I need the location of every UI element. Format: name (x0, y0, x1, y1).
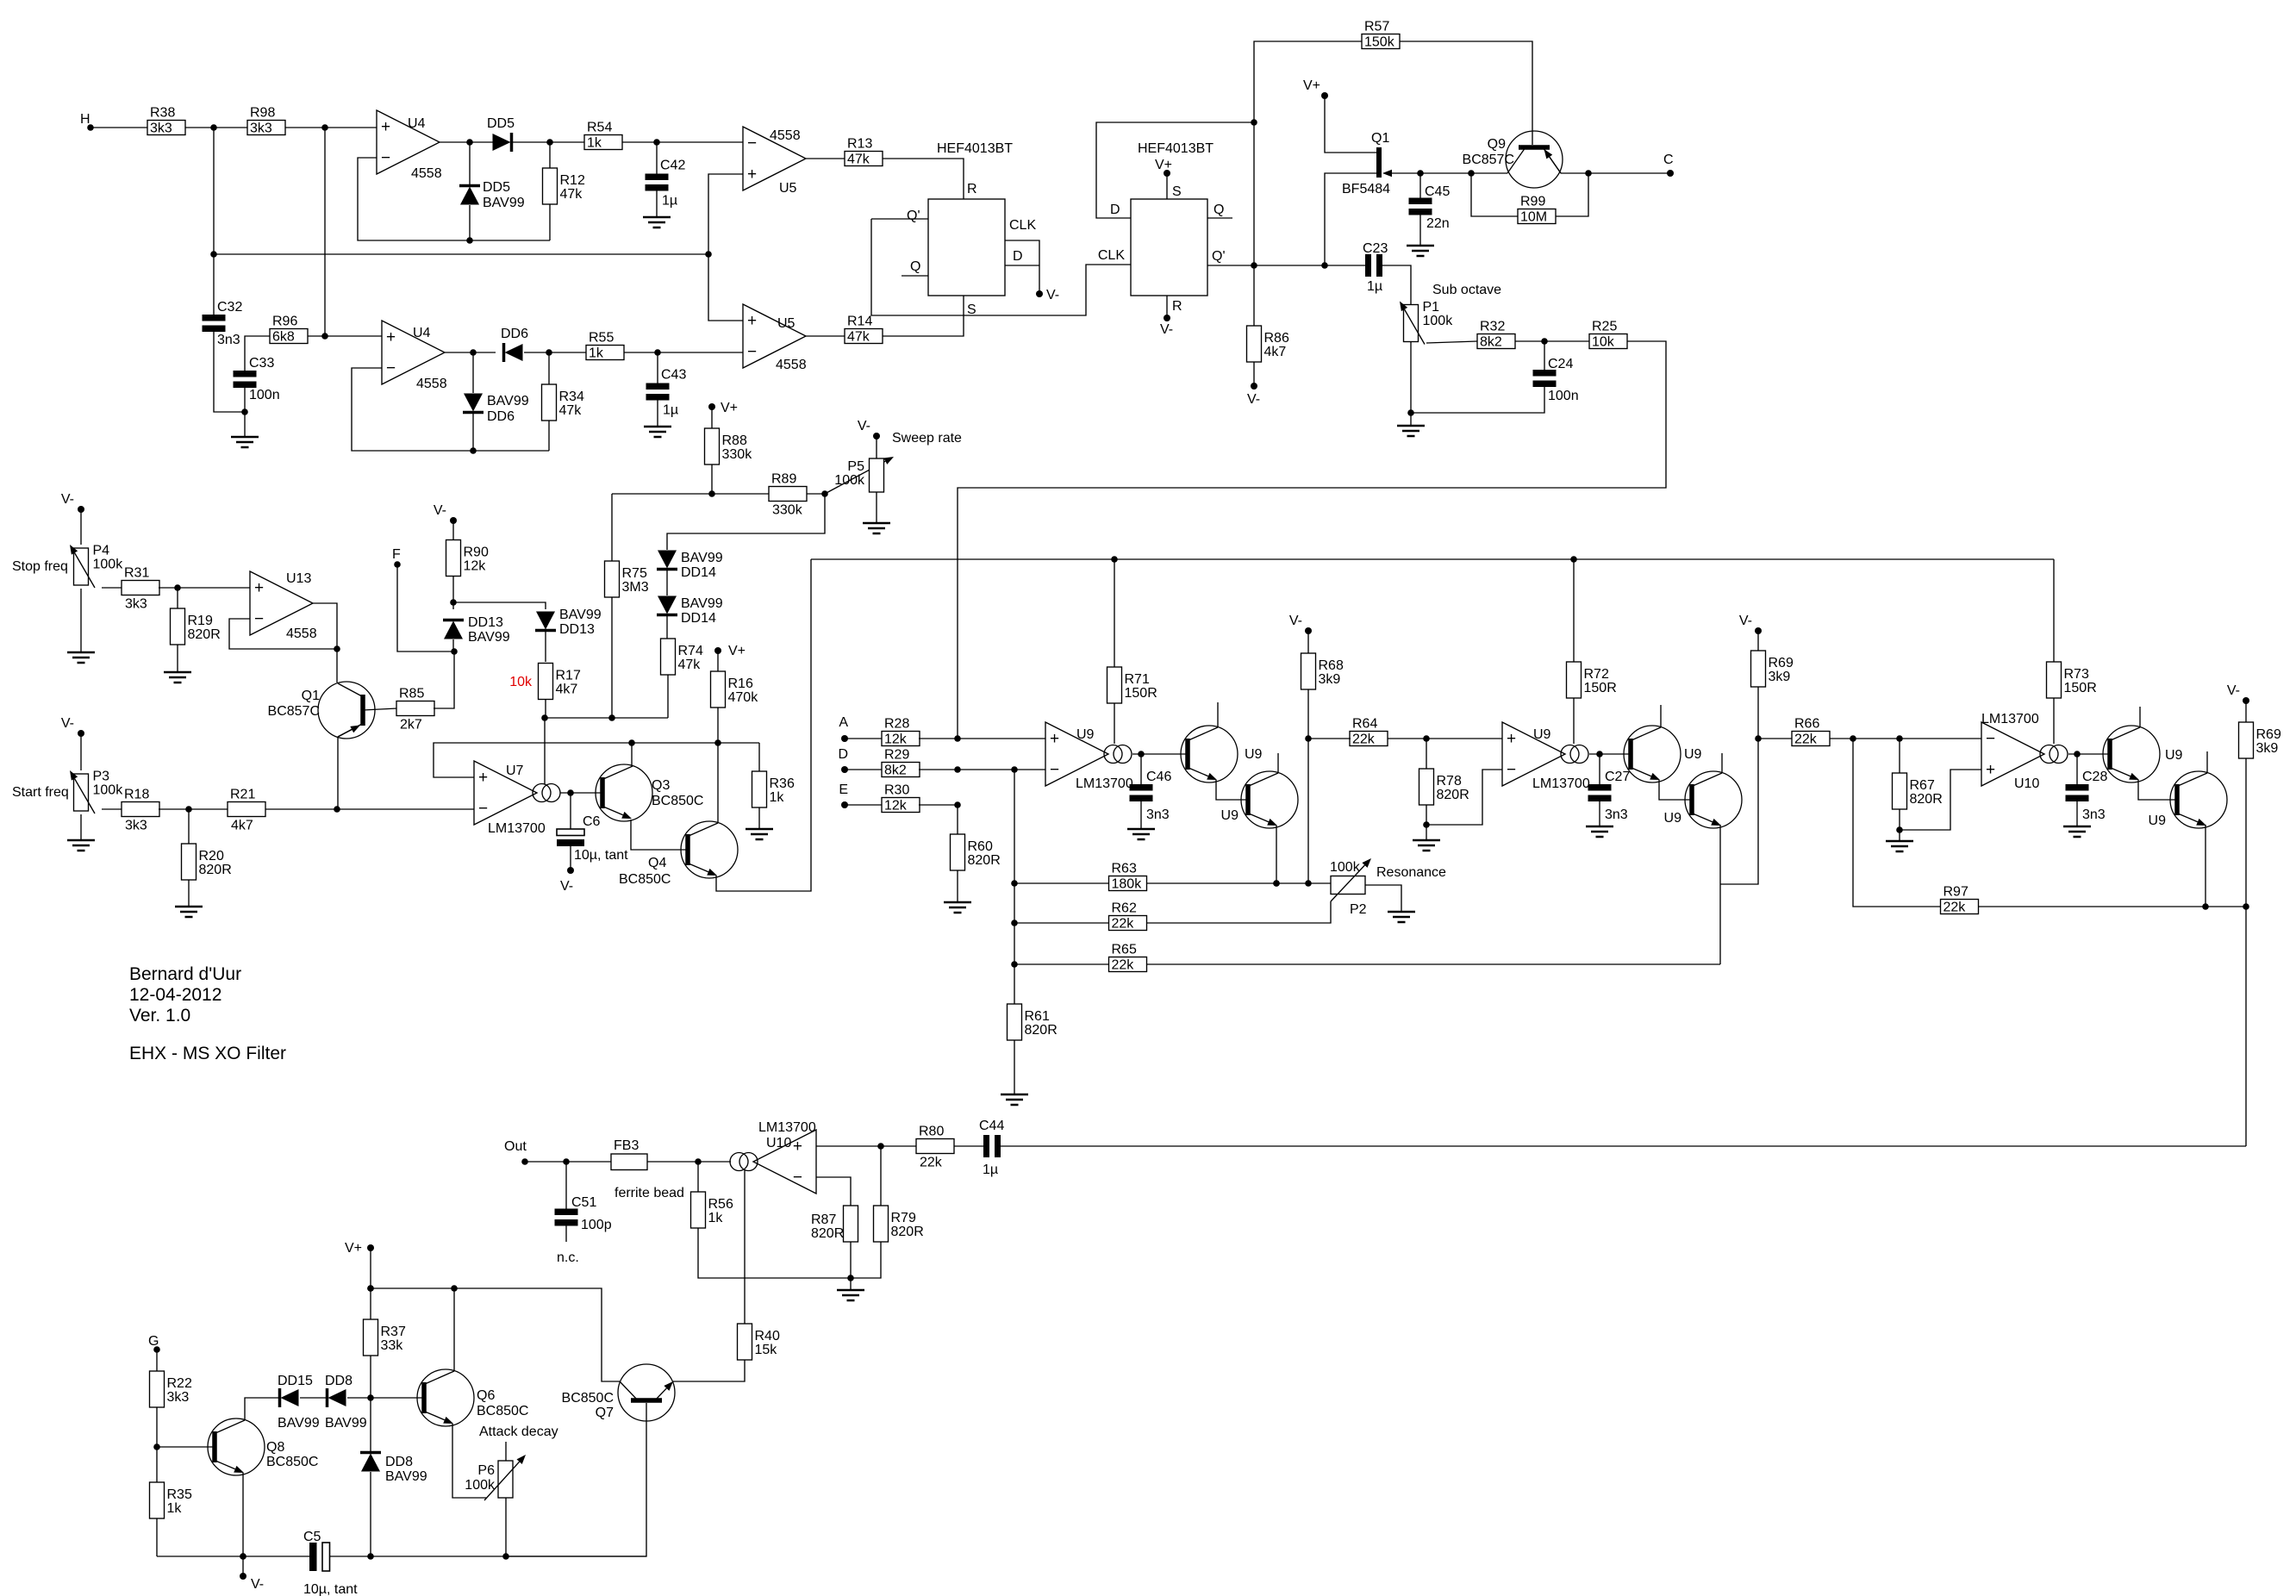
svg-text:−: − (1507, 761, 1516, 779)
power V- FF2 (1160, 315, 1173, 337)
pin label CLK FF2 (1098, 248, 1125, 263)
svg-text:−: − (793, 1169, 802, 1187)
ground under R61 (1001, 1094, 1028, 1105)
diode DD13 right BAV99 (535, 608, 602, 637)
svg-text:150R: 150R (1125, 686, 1157, 701)
wire C28 to ground (2076, 801, 2078, 826)
wire U9q4 emitter down (1719, 825, 1721, 964)
svg-text:150R: 150R (1584, 681, 1617, 695)
junction R64 R78 (1423, 735, 1430, 742)
svg-text:R88: R88 (722, 433, 747, 448)
wire R67 top lead (1899, 739, 1900, 773)
svg-text:4558: 4558 (776, 358, 807, 372)
wire rail to R73 (2053, 559, 2055, 662)
wire F down (397, 564, 454, 651)
wire C42 top lead (656, 142, 658, 175)
wire U4a feedback (358, 158, 550, 240)
pin label R FF2 (1172, 299, 1182, 314)
transistor Q7 BC850C (562, 1364, 675, 1421)
svg-text:12k: 12k (464, 559, 487, 574)
diode DD13 left BAV99 (443, 615, 510, 645)
wire Q1 to C45 (1420, 172, 1471, 174)
title author (129, 964, 241, 984)
svg-text:R29: R29 (884, 748, 909, 763)
svg-text:U5: U5 (777, 316, 795, 331)
wire U10b bias down to R40 (744, 1170, 746, 1324)
junction R62 left (1011, 920, 1018, 926)
power V- FF1 (1036, 288, 1059, 302)
wire R28 to U9a plus (919, 738, 1045, 739)
resistor R66 (1792, 717, 1830, 747)
diode DD5 shunt BAV99 (459, 180, 525, 210)
ground under R20 (175, 907, 203, 917)
wire FF1 D stub (1005, 265, 1039, 266)
wire C27 to ground (1599, 801, 1600, 826)
svg-text:R22: R22 (167, 1376, 192, 1391)
svg-text:V-: V- (61, 492, 74, 507)
junction P6 rail (502, 1553, 509, 1560)
resistor R79 (874, 1206, 924, 1242)
wire DD6 to R55 (524, 352, 586, 353)
power V- P3 (61, 716, 84, 737)
wire U9q3 emitter link (1659, 780, 1690, 800)
svg-text:1k: 1k (589, 346, 604, 361)
wire R54 to U5a (622, 141, 743, 143)
wire FF1 Q stub (902, 275, 928, 277)
wire R75 bottom lead (611, 597, 613, 718)
resistor R56 (691, 1192, 733, 1228)
wire R97 to feedback node (1978, 906, 2246, 907)
diode DD8 series BAV99 (325, 1374, 367, 1431)
ground under R87 (837, 1290, 864, 1300)
svg-text:C51: C51 (571, 1195, 596, 1210)
svg-text:820R: 820R (891, 1225, 924, 1239)
junction R90 DD13 (450, 599, 457, 606)
svg-text:R17: R17 (556, 669, 581, 683)
junction R78 gnd (1423, 821, 1430, 828)
svg-text:R80: R80 (919, 1125, 944, 1139)
wire U10b minus (816, 1177, 851, 1206)
svg-text:R99: R99 (1520, 195, 1545, 209)
svg-text:R12: R12 (560, 173, 585, 188)
svg-text:100k: 100k (834, 473, 865, 488)
wire R22 to R35 (156, 1407, 158, 1482)
svg-text:22k: 22k (1352, 733, 1376, 747)
wire R73 to U10 bias (2053, 698, 2055, 744)
power V+ env (345, 1241, 374, 1256)
svg-text:100k: 100k (93, 783, 124, 798)
wire Q6 collector up (453, 1288, 455, 1371)
wire R64 to U9b plus (1388, 738, 1502, 739)
svg-text:22k: 22k (1794, 733, 1818, 747)
svg-text:P4: P4 (93, 544, 110, 558)
wire P6 wiper arrow (484, 1455, 526, 1500)
ground under R19 (164, 672, 191, 683)
svg-text:1k: 1k (708, 1211, 724, 1225)
wire R12 bottom lead (549, 204, 551, 240)
svg-text:R96: R96 (272, 315, 297, 329)
svg-text:HEF4013BT: HEF4013BT (937, 141, 1013, 156)
wire bottom rail right (329, 1555, 646, 1557)
ground under P4 (67, 652, 95, 663)
svg-text:1k: 1k (587, 136, 602, 151)
ota U9 second LM13700 (1502, 722, 1590, 791)
svg-text:R40: R40 (755, 1329, 780, 1344)
svg-text:R36: R36 (770, 776, 795, 791)
svg-text:100k: 100k (1423, 314, 1454, 328)
svg-text:Out: Out (504, 1139, 527, 1154)
wire U4b out (445, 352, 496, 353)
svg-text:DD15: DD15 (278, 1374, 313, 1388)
wire R87 bottom lead (850, 1242, 852, 1278)
wire U7 output (560, 792, 602, 794)
node H label (80, 112, 90, 127)
resistor R60 (951, 834, 1001, 870)
resistor R98 (247, 106, 285, 136)
wire C33 bottom lead (244, 387, 246, 412)
transistor Q1 BC857C pnp (268, 682, 375, 739)
wire P6 bottom (505, 1498, 507, 1556)
svg-text:330k: 330k (722, 447, 753, 462)
wire R32 to R25 (1515, 340, 1590, 342)
wire R63 to P2 (1147, 882, 1331, 884)
svg-text:R72: R72 (1584, 667, 1609, 682)
svg-text:n.c.: n.c. (557, 1250, 579, 1265)
wire U9a out (1132, 753, 1188, 755)
label BF5484 (1342, 182, 1390, 196)
pin label CLK FF1 (1009, 218, 1036, 233)
svg-text:−: − (1050, 761, 1059, 779)
svg-text:R25: R25 (1592, 320, 1617, 334)
svg-text:V+: V+ (345, 1241, 362, 1256)
svg-text:HEF4013BT: HEF4013BT (1138, 141, 1214, 156)
wire Q9 left lead (1471, 172, 1507, 174)
junction R17 R75 rail (541, 714, 548, 721)
wire R66 to U10 minus (1830, 738, 1981, 739)
svg-text:330k: 330k (772, 503, 803, 518)
wire R56 top lead (697, 1162, 699, 1192)
svg-text:820R: 820R (1437, 788, 1469, 802)
label HEF4013BT first (937, 141, 1013, 156)
svg-text:820R: 820R (1910, 792, 1943, 807)
svg-text:R16: R16 (728, 676, 753, 691)
wire P4 wiper to R31 (102, 587, 122, 589)
svg-text:10k: 10k (509, 675, 533, 689)
svg-text:R32: R32 (1480, 320, 1505, 334)
wire R40 to Q7 emitter (673, 1360, 745, 1381)
junction R57 D (1251, 119, 1257, 126)
pin label D FF2 (1110, 203, 1120, 217)
wire P2 right to ground (1365, 885, 1401, 912)
label Sweep rate (892, 431, 962, 446)
wire R16 bottom lead (717, 708, 719, 743)
resistor R89 (769, 472, 807, 518)
node E (839, 782, 848, 808)
junction R69b R97 (2243, 903, 2249, 910)
svg-text:R20: R20 (199, 849, 224, 863)
svg-text:100k: 100k (1330, 860, 1361, 875)
pin label S FF2 (1172, 184, 1182, 199)
svg-text:R65: R65 (1112, 943, 1137, 957)
svg-text:180k: 180k (1112, 877, 1143, 892)
svg-text:BAV99: BAV99 (681, 551, 723, 565)
svg-text:P1: P1 (1423, 300, 1440, 315)
svg-text:820R: 820R (188, 627, 221, 642)
diode DD14 upper BAV99 (657, 551, 723, 581)
svg-text:Start freq: Start freq (12, 785, 69, 800)
wire DD14 to R74 (666, 616, 668, 639)
junction U9a out C46 (1138, 751, 1145, 757)
svg-text:4558: 4558 (286, 627, 317, 641)
svg-text:BAV99: BAV99 (468, 630, 510, 645)
wire DD13 right branch (453, 602, 546, 609)
svg-text:C32: C32 (217, 300, 242, 315)
wire R19 top lead (177, 588, 178, 608)
junction P2 row b (1305, 880, 1312, 887)
svg-text:V-: V- (251, 1577, 264, 1592)
resistor R68 (1301, 653, 1344, 689)
transistor Q3 BC850C (596, 764, 703, 821)
wire DD5b top lead (469, 142, 471, 184)
svg-text:R37: R37 (381, 1325, 406, 1339)
junction Q6 collector rail (451, 1285, 458, 1292)
junction R67 gnd (1896, 826, 1903, 833)
wire V+ to Q1 drain (1325, 96, 1376, 153)
wire FF1 Q' to FF2 CLK (871, 219, 1131, 315)
resistor R57 (1362, 20, 1400, 50)
svg-text:R56: R56 (708, 1197, 733, 1212)
svg-text:R78: R78 (1437, 774, 1462, 789)
ground under P1 (1397, 426, 1425, 436)
wire Q3 collector (631, 743, 633, 766)
wire R60 bottom lead (957, 870, 958, 902)
ota U10 third LM13700 (1981, 712, 2068, 791)
wire Q' to Q1 gate (1325, 173, 1376, 265)
svg-text:P6: P6 (477, 1463, 495, 1478)
power V- C6 (560, 867, 574, 894)
svg-text:Q': Q' (907, 209, 920, 223)
label Sub octave (1432, 283, 1501, 297)
wire DD6b top lead (472, 352, 474, 393)
resistor R64 (1350, 717, 1388, 747)
wire DD13a bottom lead (452, 639, 454, 651)
wire R69a bottom lead (1757, 687, 1759, 739)
diode DD14 lower BAV99 (657, 596, 723, 627)
ground under C42 (643, 217, 671, 228)
svg-text:R89: R89 (771, 472, 796, 487)
resistor R90 (446, 540, 489, 577)
wire U4a out (440, 141, 493, 143)
svg-text:Q4: Q4 (648, 856, 666, 870)
svg-text:BC850C: BC850C (652, 794, 703, 808)
wire R34 top lead (548, 352, 550, 384)
resistor R40 (738, 1324, 780, 1360)
wire gnd stub (244, 412, 246, 437)
wire Q8 base (157, 1446, 214, 1448)
node Out (521, 1158, 528, 1165)
svg-text:R14: R14 (847, 315, 872, 329)
wire V- to R69a (1757, 631, 1759, 651)
svg-text:U4: U4 (413, 326, 431, 340)
resistor R69 left (1751, 651, 1794, 687)
node G (153, 1346, 160, 1353)
junction U7 out C6 (567, 789, 574, 796)
wire C6 bottom lead (570, 846, 571, 870)
svg-text:C23: C23 (1363, 241, 1388, 256)
wire C43 to ground (657, 399, 658, 427)
svg-text:3M3: 3M3 (622, 580, 649, 595)
wire R65 row (1014, 963, 1147, 965)
resistor R63 (1109, 862, 1147, 892)
resistor R37 (364, 1319, 406, 1356)
node H (87, 124, 94, 131)
op-amp U5 top (743, 127, 806, 196)
label Stop freq (12, 559, 68, 574)
wire R71 top lead (1114, 559, 1115, 667)
svg-text:12k: 12k (884, 733, 908, 747)
wire R67 bottom lead (1899, 809, 1900, 830)
svg-text:−: − (381, 149, 390, 167)
resistor R36 (752, 771, 795, 807)
wire Q1 collector down (337, 737, 339, 809)
wire R13 to FF1 R pin (883, 159, 964, 199)
svg-text:Sweep rate: Sweep rate (892, 431, 962, 446)
wire stage2 emitter to R66 node (1720, 739, 1758, 884)
svg-text:8k2: 8k2 (1480, 335, 1502, 350)
wire R64 left lead (1308, 738, 1351, 739)
svg-text:+: + (1507, 730, 1516, 748)
wire C51 nc stub (565, 1225, 567, 1242)
junction V+ rail (367, 1285, 374, 1292)
transistor Q6 BC850C (417, 1369, 528, 1426)
wire feedback to C44 (1001, 1145, 2246, 1147)
svg-text:FB3: FB3 (614, 1138, 639, 1153)
ground under C43 (644, 427, 671, 437)
svg-text:Q: Q (1214, 203, 1224, 217)
svg-text:Q: Q (910, 259, 920, 274)
junction emitter R97 row (2202, 903, 2209, 910)
wire R20 bottom lead (188, 880, 190, 907)
svg-text:H: H (80, 112, 90, 127)
resistor R99 (1518, 195, 1556, 225)
ground under R36 (746, 829, 773, 839)
capacitor C6 10u tant (557, 814, 628, 863)
svg-text:U9: U9 (1684, 747, 1702, 762)
wire R67 gnd stub (1899, 830, 1900, 841)
wire R72 top lead (1573, 559, 1575, 662)
wire R37 to diode node (370, 1356, 371, 1398)
svg-text:47k: 47k (559, 403, 583, 418)
wire C46 to ground (1140, 801, 1142, 829)
power V- rail (240, 1573, 264, 1592)
wire P3 wiper to R18 (102, 808, 122, 810)
svg-text:R35: R35 (167, 1487, 192, 1502)
svg-text:Q6: Q6 (477, 1388, 495, 1403)
svg-text:R74: R74 (678, 644, 703, 658)
svg-text:V+: V+ (1303, 78, 1320, 93)
svg-text:33k: 33k (381, 1338, 404, 1353)
capacitor C27 (1588, 770, 1631, 822)
svg-text:P2: P2 (1350, 902, 1367, 917)
svg-text:R57: R57 (1364, 20, 1389, 34)
transistor Q1 BF5484 bar (1376, 147, 1382, 178)
svg-text:100k: 100k (465, 1478, 496, 1493)
transistor U9 mirror upper 3 (2103, 726, 2183, 782)
svg-text:BC850C: BC850C (266, 1455, 318, 1469)
svg-text:−: − (747, 343, 757, 361)
capacitor C5 10u tant (303, 1530, 358, 1596)
svg-text:CLK: CLK (1098, 248, 1125, 263)
wire DD15 to DD8 (300, 1397, 327, 1399)
svg-text:+: + (386, 328, 396, 346)
svg-text:C45: C45 (1425, 184, 1450, 199)
wire R88 bottom lead (711, 464, 713, 494)
ota U10 output LM13700 (730, 1120, 816, 1194)
wire U5 plus loop (708, 174, 743, 321)
svg-text:820R: 820R (811, 1226, 844, 1241)
svg-text:R98: R98 (250, 106, 275, 121)
node F label (392, 547, 401, 562)
wire U9q2 collector stub (1277, 753, 1279, 773)
svg-text:BC850C: BC850C (477, 1404, 528, 1418)
resistor R71 (1107, 667, 1157, 703)
transistor U9 mirror upper 1 (1181, 726, 1263, 782)
svg-text:100n: 100n (1548, 389, 1579, 403)
resistor R97 (1941, 885, 1979, 915)
svg-text:V-: V- (1739, 614, 1752, 628)
svg-text:+: + (747, 312, 757, 330)
transistor Q4 BC850C (619, 821, 738, 887)
svg-text:10µ, tant: 10µ, tant (574, 848, 628, 863)
resistor R21 (228, 788, 265, 833)
svg-text:Q7: Q7 (596, 1406, 614, 1420)
wire R63 row (1014, 882, 1108, 884)
junction U5 plus bus (705, 251, 712, 258)
junction E bus (954, 801, 961, 808)
junction H node (210, 124, 217, 131)
op-amp U5 bottom (743, 304, 807, 372)
svg-text:Stop freq: Stop freq (12, 559, 68, 574)
transistor U9 mirror lower 2 (1664, 771, 1742, 828)
svg-text:U10: U10 (2014, 776, 2039, 791)
svg-text:BAV99: BAV99 (559, 608, 602, 622)
label Start freq (12, 785, 69, 800)
svg-text:BC850C: BC850C (562, 1391, 614, 1406)
resistor R18 (122, 788, 159, 833)
wire R78 top lead (1426, 739, 1427, 769)
junction Q8 base (153, 1443, 160, 1450)
wire U9q3 collector stub (1660, 705, 1662, 727)
wire P5 bottom (876, 492, 877, 523)
svg-text:1k: 1k (770, 790, 785, 805)
junction U9b out C27 (1596, 751, 1603, 757)
wire Q3 emitter to Q4 base (631, 820, 687, 850)
resistor R62 (1109, 901, 1147, 932)
wire V- to P4 (80, 509, 82, 545)
svg-text:R18: R18 (124, 788, 149, 802)
svg-text:1k: 1k (167, 1501, 183, 1516)
wire Q4 collector (717, 743, 719, 823)
resistor R12 (543, 168, 585, 204)
svg-text:−: − (254, 610, 264, 628)
svg-text:+: + (793, 1138, 802, 1156)
junction A bus (954, 735, 961, 742)
junction C45 top (1417, 170, 1424, 177)
pin label R FF1 (967, 182, 977, 196)
svg-text:U9: U9 (1076, 727, 1095, 742)
junction R88 rail (708, 490, 715, 497)
node G label (148, 1334, 159, 1349)
